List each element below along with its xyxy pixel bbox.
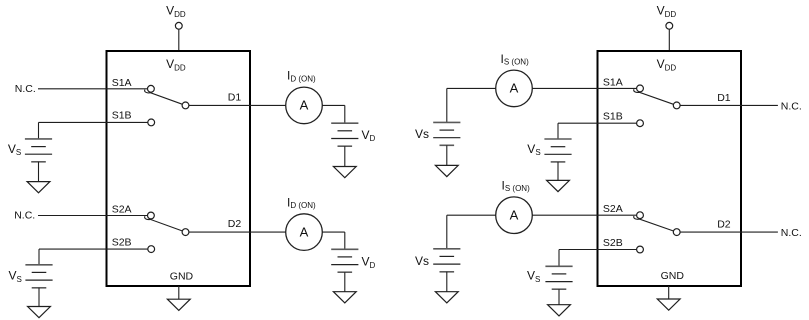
pin contact SW2 pole D2 (left) (182, 229, 189, 236)
svg-text:GND: GND (661, 270, 685, 282)
wire VS1 top lead (left) (38, 122, 40, 138)
switch blade SW1 (left) (145, 90, 183, 105)
switch blade SW1 (right) (634, 89, 674, 104)
battery VS1 (left) (25, 139, 52, 162)
svg-text:S2A: S2A (112, 204, 132, 216)
svg-text:D2: D2 (717, 219, 731, 231)
wire ammeter ID2 to VD2 (left) (322, 231, 345, 233)
wire VS4 to S1B (right) (558, 122, 637, 124)
battery VD2 (left) (331, 249, 358, 272)
svg-text:S1B: S1B (603, 111, 623, 123)
battery VS5 (right) (433, 249, 460, 272)
wire N.C. to S1A (left) (38, 88, 148, 90)
wire D1 to N.C. (right) (680, 104, 778, 106)
svg-text:S1B: S1B (112, 110, 132, 122)
pin contact S2B (right) (637, 246, 644, 253)
pin contact S1B (right) (637, 120, 644, 127)
wire ammeter IS1 to S1A (right) (532, 87, 636, 89)
pin contact SW1 pole D1 (right) (673, 102, 680, 109)
wire D2 to N.C. (right) (680, 231, 778, 233)
ground under VS2 (left) (28, 288, 51, 318)
battery VS3 (right) (433, 122, 460, 145)
wire VD2 top lead (left) (344, 232, 346, 249)
wire VS2 top lead (left) (38, 249, 40, 265)
wire VD1 top lead (left) (344, 105, 346, 123)
svg-text:D1: D1 (228, 91, 242, 103)
svg-text:S1A: S1A (603, 76, 623, 88)
svg-text:A: A (300, 98, 309, 113)
battery VD1 (left) (331, 123, 358, 146)
ground under VD2 (left) (333, 272, 356, 303)
ground under VS3 (right) (435, 145, 458, 176)
pin contact S2A (left) (148, 212, 155, 219)
IC U2 DUT body (right) (598, 51, 742, 286)
wire VS6 to S2B (right) (559, 249, 637, 251)
wire VS6 top lead (right) (558, 250, 560, 267)
ground under VS1 (left) (27, 162, 50, 193)
svg-text:A: A (510, 208, 519, 223)
node VDD terminal (right) (666, 22, 673, 29)
wire S1B to VS1 (left) (39, 121, 148, 123)
ammeter IS1 (right) (496, 70, 533, 107)
svg-text:S2B: S2B (603, 237, 623, 249)
pin contact S1B (left) (148, 119, 155, 126)
svg-text:Vs: Vs (415, 254, 429, 268)
ground GND (right) (657, 286, 680, 310)
wire ammeter IS2 to S2A (right) (532, 214, 636, 216)
ground under VD1 (left) (333, 146, 356, 178)
battery VS6 (right) (545, 266, 572, 289)
svg-text:GND: GND (170, 270, 194, 282)
wire D2 to ammeter (left) (189, 231, 286, 233)
switch blade SW2 (right) (634, 216, 674, 231)
wire ammeter ID1 to VD1 (left) (322, 104, 345, 106)
wire VS5 to ammeter (right) (447, 214, 496, 216)
wire VDD feed (left) (178, 29, 180, 51)
wire VS4 top lead (right) (557, 123, 559, 139)
wire S2B to VS2 (left) (39, 248, 148, 250)
svg-text:A: A (300, 224, 309, 239)
wire VS5 top lead (right) (446, 215, 448, 249)
svg-text:N.C.: N.C. (781, 100, 802, 112)
ammeter IS2 (right) (496, 197, 533, 234)
svg-text:Vs: Vs (415, 127, 429, 141)
ground under VS5 (right) (435, 272, 458, 303)
svg-text:S2A: S2A (603, 203, 623, 215)
pin contact SW2 pole D2 (right) (673, 229, 680, 236)
svg-text:D1: D1 (717, 92, 731, 104)
switch blade SW2 (left) (145, 216, 183, 231)
IC U1 DUT body (left) (107, 51, 251, 286)
pin contact S1A (right) (637, 85, 644, 92)
wire VS3 to ammeter (right) (447, 87, 496, 89)
pin contact SW1 pole D1 (left) (182, 102, 189, 109)
ground GND (left) (167, 286, 190, 310)
pin contact S1A (left) (148, 85, 155, 92)
battery VS2 (left) (25, 265, 52, 288)
wire VDD feed (right) (668, 29, 670, 51)
ammeter ID2 (left) (286, 214, 323, 251)
svg-text:N.C.: N.C. (781, 227, 802, 239)
wire N.C. to S2A (left) (38, 215, 148, 217)
ground under VS6 (right) (548, 289, 571, 316)
svg-text:D2: D2 (228, 218, 242, 230)
svg-text:A: A (510, 81, 519, 96)
battery VS4 (right) (544, 139, 571, 162)
svg-text:N.C.: N.C. (14, 210, 35, 222)
svg-text:S1A: S1A (112, 77, 132, 89)
pin contact S2B (left) (148, 246, 155, 253)
svg-text:N.C.: N.C. (15, 83, 36, 95)
wire D1 to ammeter (left) (189, 104, 286, 106)
node VDD terminal (left) (175, 22, 182, 29)
svg-text:S2B: S2B (112, 236, 132, 248)
ammeter ID1 (left) (286, 87, 323, 124)
ground under VS4 (right) (547, 162, 570, 192)
wire VS3 top lead (right) (446, 88, 448, 122)
pin contact S2A (right) (637, 212, 644, 219)
